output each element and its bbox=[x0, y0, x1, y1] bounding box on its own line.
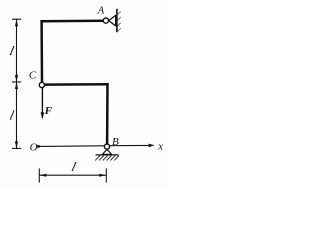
svg-text:A: A bbox=[97, 6, 105, 17]
node O dot bbox=[37, 145, 40, 148]
pin support at B: circle bbox=[104, 144, 109, 149]
pin node C circle bbox=[39, 82, 44, 87]
svg-text:x: x bbox=[157, 142, 163, 153]
svg-text:O: O bbox=[30, 142, 38, 154]
bottom dimension: right tick bbox=[105, 168, 107, 182]
x axis from O through B bbox=[38, 145, 150, 146]
svg-text:B: B bbox=[112, 136, 119, 148]
roller support at A: wall hatching bbox=[118, 11, 121, 31]
force F arrow at C bbox=[41, 88, 43, 114]
svg-text:F: F bbox=[44, 105, 53, 117]
member: horizontal bar C to corner above B bbox=[45, 83, 109, 86]
x axis arrowhead bbox=[149, 144, 155, 148]
roller support at A: circle bbox=[103, 18, 108, 23]
bottom dimension: horizontal line bbox=[39, 174, 106, 176]
svg-text:C: C bbox=[29, 69, 37, 81]
left dimension: top tick bbox=[12, 18, 21, 20]
left dimension: vertical line bbox=[16, 19, 18, 148]
roller support at A: triangle bbox=[109, 15, 116, 26]
pin support at B: ground hatching bbox=[95, 156, 119, 161]
left dimension: middle tick at C level bbox=[12, 81, 21, 83]
left dimension: arrowheads bbox=[15, 19, 18, 26]
bottom dimension: arrowheads bbox=[39, 174, 46, 177]
member: right vertical bar down to B bbox=[106, 83, 109, 144]
left dimension: bottom tick bbox=[12, 147, 21, 149]
bottom dimension: left tick bbox=[38, 168, 40, 182]
member: left vertical bar corner to C bbox=[40, 20, 43, 82]
pin support at B: ground line bbox=[96, 154, 119, 156]
roller support at A: wall line bbox=[116, 9, 118, 32]
member: top horizontal bar A to top-left corner bbox=[41, 19, 104, 22]
pin support at B: triangle bbox=[102, 149, 111, 154]
